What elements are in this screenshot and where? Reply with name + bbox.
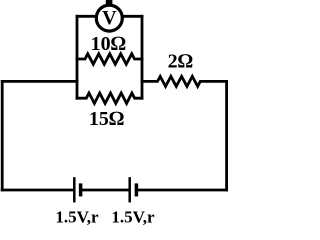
resistor R2 15Ω: [77, 93, 142, 103]
svg-text:1.5V,r: 1.5V,r: [111, 208, 155, 227]
resistor R1 10Ω: [77, 54, 142, 64]
resistor R3 2Ω: [142, 76, 227, 86]
svg-text:1.5V,r: 1.5V,r: [55, 208, 99, 227]
battery B2 short plate: [135, 183, 139, 196]
wire bottom segment 1: [2, 189, 73, 192]
svg-text:15Ω: 15Ω: [89, 108, 124, 130]
wire bottom segment 2: [82, 189, 128, 192]
wire right edge: [225, 81, 228, 190]
battery B1 short plate: [79, 183, 83, 196]
voltmeter terminal stub: [106, 0, 113, 6]
wire left branch: [2, 80, 77, 83]
battery B2 long plate: [128, 177, 131, 202]
svg-text:V: V: [102, 7, 117, 29]
wire box left edge: [76, 16, 79, 98]
voltmeter U1 circle: [96, 5, 122, 31]
wire box top rail: [77, 15, 142, 18]
wire bottom segment 3: [138, 189, 227, 192]
battery B1 long plate: [73, 177, 76, 202]
wire left edge: [1, 81, 4, 190]
svg-text:10Ω: 10Ω: [91, 33, 126, 55]
svg-text:2Ω: 2Ω: [168, 50, 193, 72]
wire box right edge: [141, 16, 144, 98]
